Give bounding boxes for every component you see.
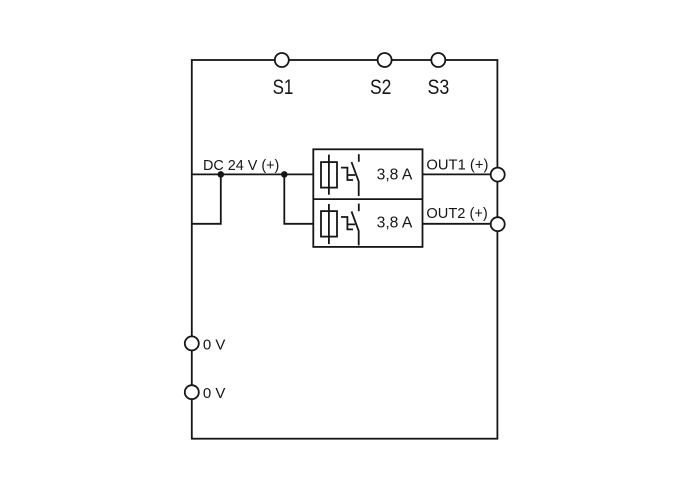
wire module divider [313, 198, 422, 200]
breaker module box F1/F2 [313, 149, 422, 247]
svg-text:0 V: 0 V [203, 336, 226, 353]
wire OUT2 [423, 223, 498, 225]
node OUT1 terminal [491, 168, 505, 182]
breaker contact Q2 blade [352, 211, 359, 245]
wire OUT1 [423, 173, 498, 175]
node 0V terminal 1 [185, 336, 199, 350]
junction dot 1 [218, 171, 225, 178]
wire DC 24 V (+) feed [192, 173, 313, 175]
svg-text:OUT2 (+): OUT2 (+) [426, 205, 487, 222]
fuse F1 element line [328, 155, 330, 195]
svg-text:3,8 A: 3,8 A [377, 215, 413, 232]
wire device outline rectangle [192, 60, 498, 439]
svg-text:OUT1 (+): OUT1 (+) [426, 157, 488, 174]
junction dot 2 [281, 171, 288, 178]
wire branch 1 stub [192, 174, 221, 223]
breaker contact Q2 latch [341, 217, 355, 229]
svg-text:3,8 A: 3,8 A [377, 167, 413, 184]
svg-text:S1: S1 [273, 76, 294, 99]
breaker contact Q1 blade [352, 162, 359, 196]
node S3 terminal [431, 53, 445, 67]
breaker contact Q1 tick [358, 154, 360, 162]
fuse F1 body [321, 162, 337, 188]
node S1 terminal [275, 53, 289, 67]
node S2 terminal [378, 53, 392, 67]
svg-text:0 V: 0 V [203, 385, 226, 402]
fuse F2 body [321, 211, 337, 237]
breaker contact Q1 latch [341, 168, 355, 180]
svg-text:DC 24 V (+): DC 24 V (+) [203, 157, 279, 174]
svg-text:S2: S2 [370, 76, 391, 99]
breaker contact Q2 tick [358, 204, 360, 212]
node 0V terminal 2 [185, 385, 199, 399]
node OUT2 terminal [491, 217, 505, 231]
fuse F2 element line [328, 204, 330, 244]
svg-text:S3: S3 [428, 76, 450, 99]
wire branch 2 stub [284, 174, 313, 223]
